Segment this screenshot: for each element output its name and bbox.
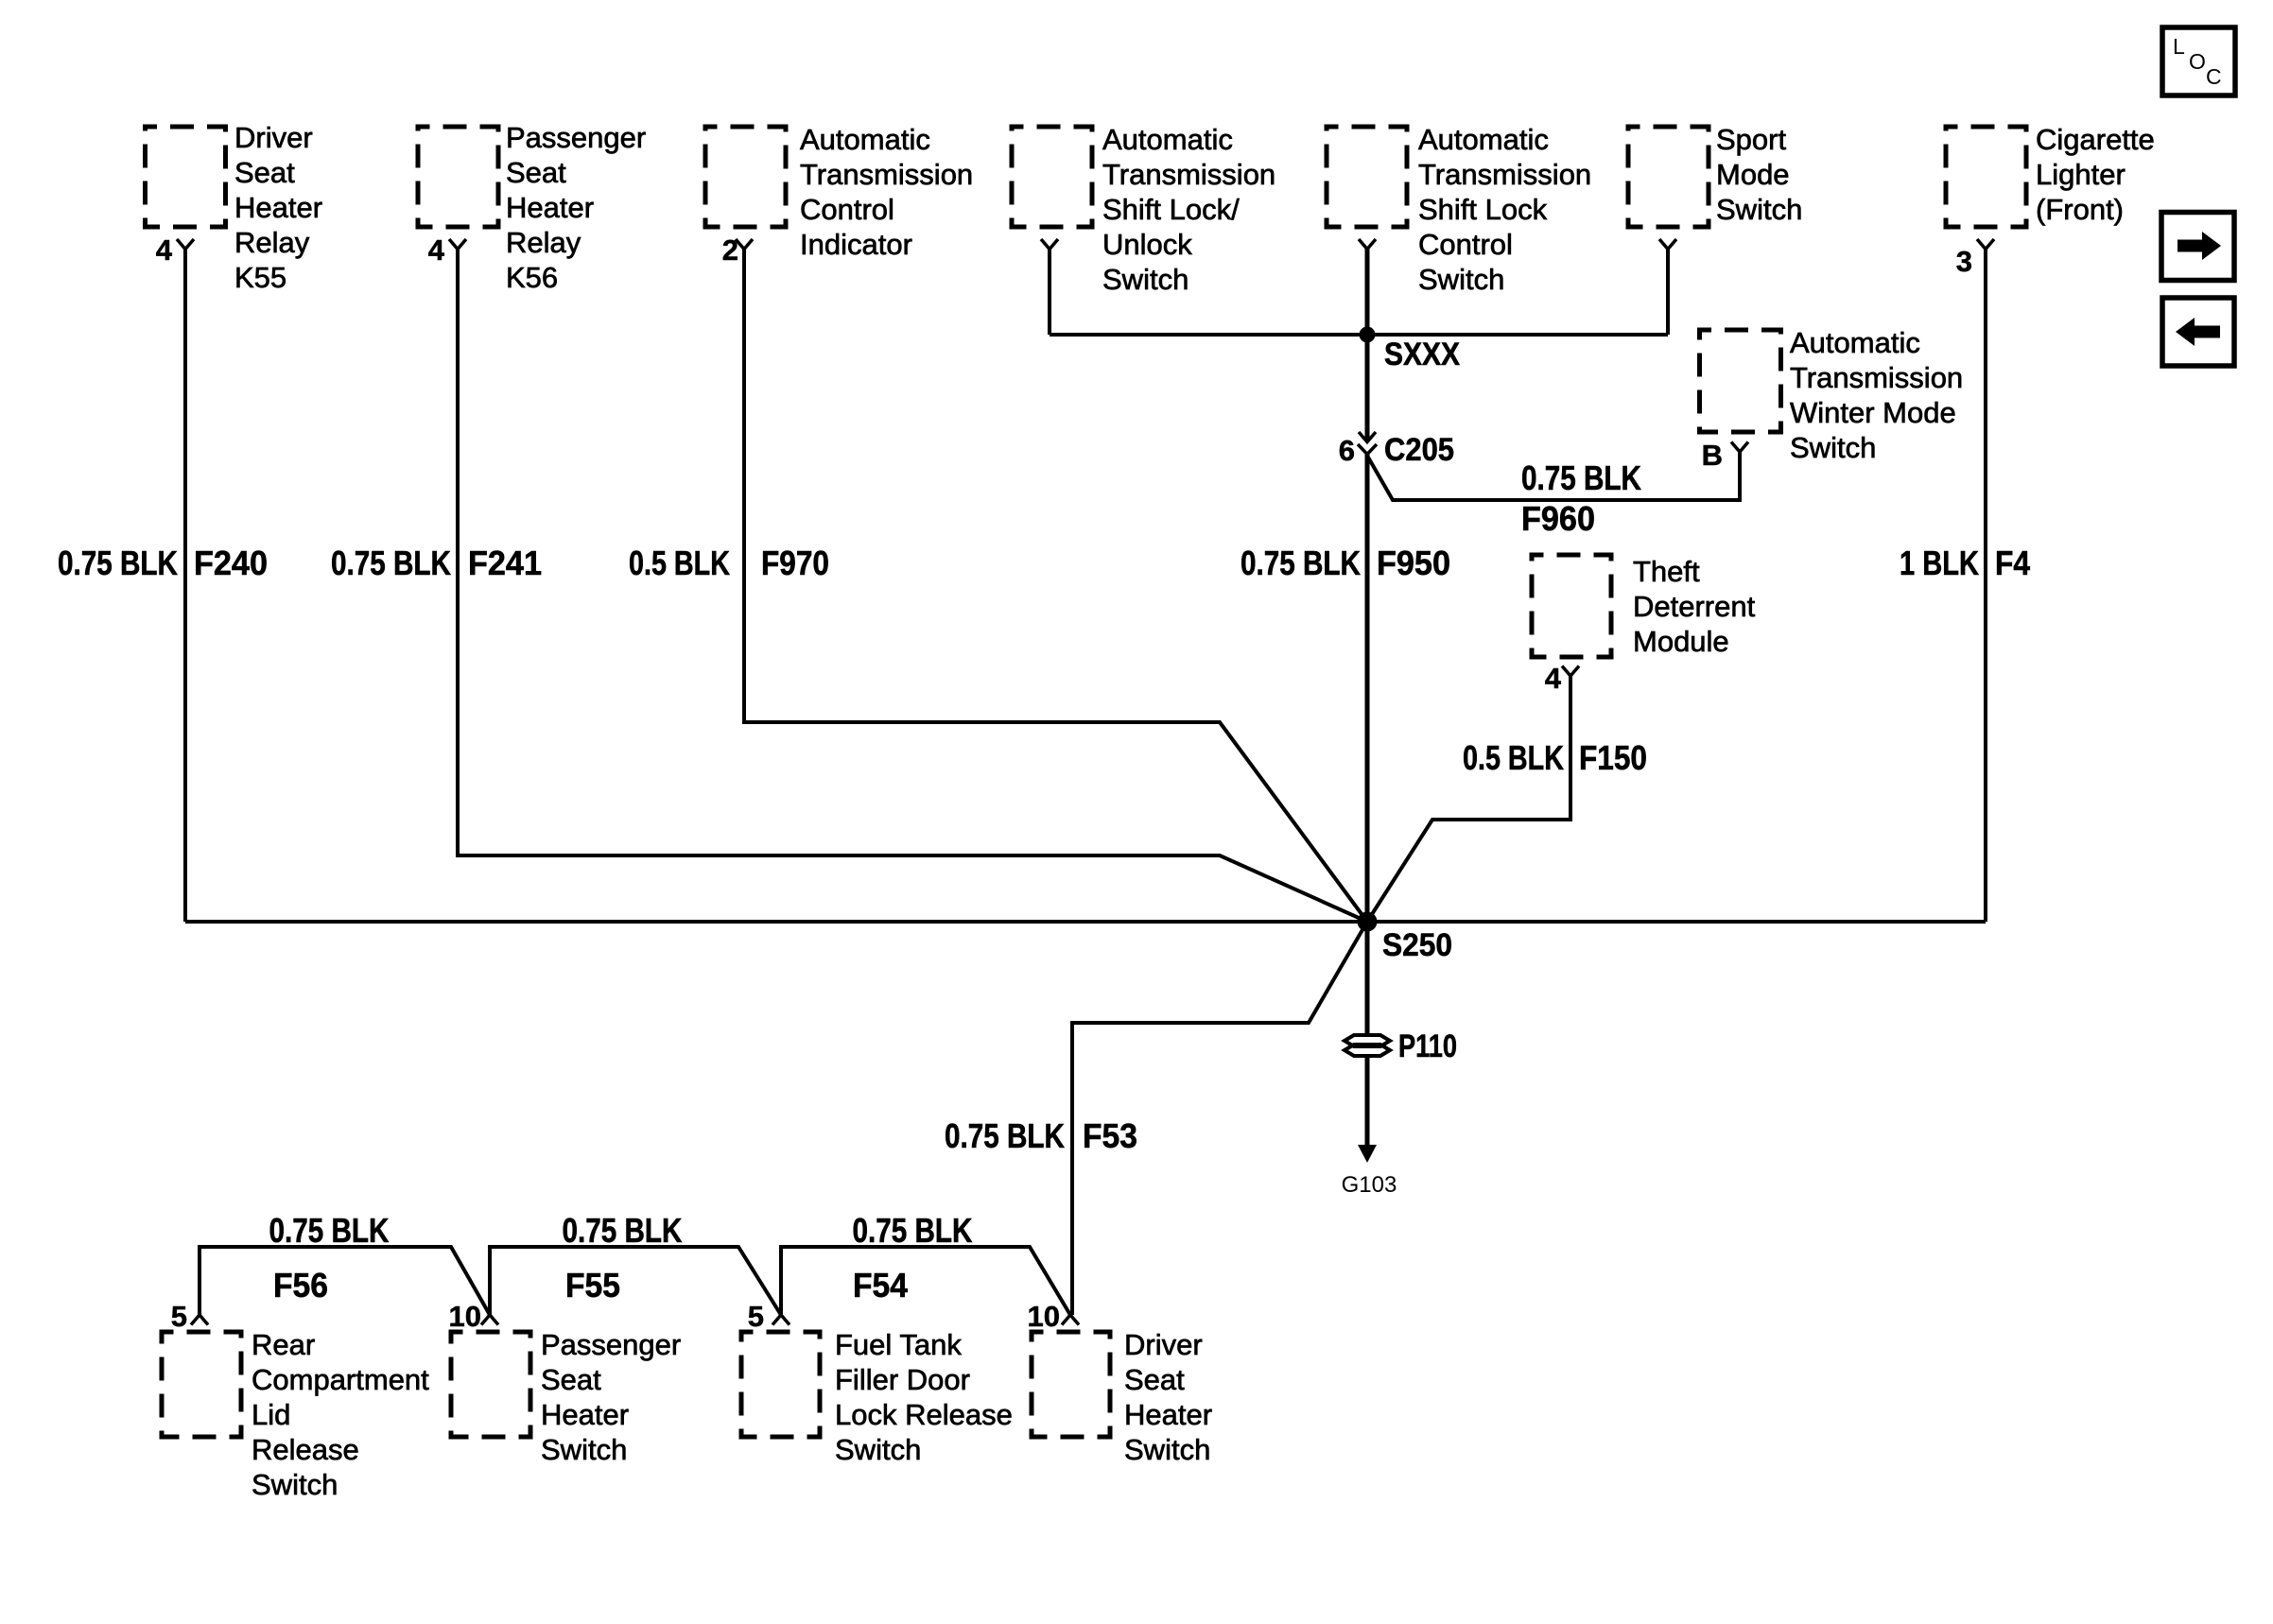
svg-text:Switch: Switch: [835, 1433, 921, 1466]
switch: Rear Compartment Lid Release Switch: [162, 1328, 429, 1501]
pin 5 of fuel tank filler door lock release switch: [748, 1300, 789, 1333]
svg-text:Winter Mode: Winter Mode: [1790, 396, 1956, 429]
pin B of winter mode switch: [1702, 439, 1748, 472]
splice S250: [1358, 912, 1453, 964]
svg-text:0.75 BLK: 0.75 BLK: [563, 1211, 683, 1250]
svg-text:C205: C205: [1384, 432, 1454, 468]
component: Cigarette Lighter (Front): [1946, 123, 2155, 227]
svg-text:3: 3: [1956, 245, 1972, 278]
grommet P110: [1345, 1028, 1457, 1064]
wire from P110 to ground: [1365, 1056, 1370, 1146]
svg-text:Automatic: Automatic: [1418, 123, 1549, 156]
svg-text:Transmission: Transmission: [1790, 361, 1963, 394]
svg-text:Sport: Sport: [1716, 123, 1786, 156]
svg-text:F55: F55: [565, 1266, 620, 1304]
pin 4 of K55: [156, 233, 194, 267]
svg-text:Relay: Relay: [506, 226, 581, 259]
svg-text:Compartment: Compartment: [252, 1363, 429, 1396]
svg-text:Driver: Driver: [234, 121, 313, 154]
svg-text:K56: K56: [506, 261, 558, 294]
wire F54 (fuel tank filler door lock release switch pin 5 to driver seat heater switch pin 10): [781, 1247, 1070, 1315]
svg-text:(Front): (Front): [2036, 193, 2124, 226]
wire F150 (S250 to theft deterrent module pin 4): [1367, 676, 1570, 922]
svg-text:4: 4: [428, 233, 445, 267]
ground G103: [1342, 1145, 1397, 1198]
svg-text:Switch: Switch: [541, 1433, 627, 1466]
svg-text:P110: P110: [1398, 1028, 1457, 1064]
label 0.75 BLK F53: [945, 1116, 1137, 1155]
svg-text:2: 2: [722, 233, 738, 267]
switch: Automatic Transmission Shift Lock Control Switch: [1327, 123, 1591, 296]
svg-text:Shift Lock: Shift Lock: [1418, 193, 1548, 226]
svg-text:S250: S250: [1382, 927, 1452, 963]
svg-text:Heater: Heater: [1124, 1398, 1212, 1431]
svg-text:Heater: Heater: [234, 191, 322, 224]
svg-text:F950: F950: [1377, 544, 1450, 582]
svg-text:0.75 BLK: 0.75 BLK: [1521, 458, 1641, 497]
svg-text:0.75 BLK: 0.75 BLK: [58, 544, 178, 582]
svg-text:Switch: Switch: [1102, 263, 1189, 296]
svg-text:F4: F4: [1995, 544, 2030, 582]
svg-text:Passenger: Passenger: [506, 121, 646, 154]
svg-text:0.75 BLK: 0.75 BLK: [1241, 544, 1361, 582]
svg-text:Mode: Mode: [1716, 158, 1790, 191]
switch: Automatic Transmission Winter Mode Switch: [1700, 326, 1964, 464]
svg-text:L: L: [2173, 34, 2185, 59]
svg-text:Automatic: Automatic: [1790, 326, 1920, 359]
wire F970 (indicator pin 2 to S250): [744, 250, 1367, 923]
svg-text:Filler Door: Filler Door: [835, 1363, 970, 1396]
pin 10 of driver seat heater switch: [1028, 1300, 1079, 1333]
svg-text:F960: F960: [1521, 499, 1595, 538]
wire F53 (S250 to driver seat heater switch pin 10): [1072, 922, 1367, 1315]
svg-text:10: 10: [1028, 1300, 1060, 1333]
switch: Driver Seat Heater Switch: [1032, 1328, 1212, 1466]
splice SXXX: [1360, 327, 1461, 373]
svg-text:Seat: Seat: [541, 1363, 601, 1396]
svg-text:Control: Control: [800, 193, 894, 226]
svg-text:Switch: Switch: [1418, 263, 1504, 296]
wire main vertical from C205 to P110 (through S250): [1365, 455, 1370, 1034]
switch: Sport Mode Switch: [1628, 123, 1802, 227]
svg-text:Switch: Switch: [1716, 193, 1802, 226]
label 0.5 BLK F150: [1463, 738, 1647, 777]
wire from shift lock/unlock switch down to SXXX bus: [1048, 250, 1051, 336]
indicator: Automatic Transmission Control Indicator: [705, 123, 973, 261]
wire F55 (passenger seat heater switch pin 10 to fuel tank filler door lock release switch pin 5): [490, 1247, 781, 1315]
switch: Passenger Seat Heater Switch: [451, 1328, 681, 1466]
svg-text:Unlock: Unlock: [1102, 228, 1192, 261]
svg-text:F53: F53: [1083, 1116, 1137, 1155]
pin of shift lock control switch: [1359, 239, 1376, 250]
wire F960 (C205 to winter mode switch pin B): [1367, 452, 1740, 500]
label 0.75 BLK F240: [58, 544, 268, 582]
pin 5 of rear compartment lid release switch: [171, 1300, 208, 1333]
wire SXXX horizontal bus: [1050, 333, 1668, 337]
svg-text:F54: F54: [853, 1266, 908, 1304]
pin 4 of K56: [428, 233, 466, 267]
svg-text:Shift Lock/: Shift Lock/: [1102, 193, 1240, 226]
svg-text:F150: F150: [1579, 738, 1647, 777]
svg-text:Indicator: Indicator: [800, 228, 912, 261]
wire F241 (K56 pin 4 to S250): [458, 250, 1367, 923]
svg-text:Switch: Switch: [252, 1468, 338, 1501]
svg-text:Theft: Theft: [1633, 555, 1700, 588]
pin 3 of cigarette lighter: [1956, 239, 1994, 278]
wire from sport mode switch down to SXXX bus: [1666, 250, 1670, 336]
svg-text:0.75 BLK: 0.75 BLK: [331, 544, 451, 582]
pin of sport mode switch: [1659, 239, 1676, 250]
legend LOC box: [2162, 27, 2235, 95]
svg-text:Passenger: Passenger: [541, 1328, 681, 1361]
svg-text:0.5 BLK: 0.5 BLK: [629, 544, 730, 582]
label 0.75 BLK F56: [269, 1211, 390, 1304]
label 0.75 BLK F54: [853, 1211, 973, 1304]
pin of shift lock/unlock switch: [1041, 239, 1058, 250]
legend left-arrow box: [2162, 298, 2234, 366]
module: Theft Deterrent Module: [1532, 555, 1756, 658]
svg-text:5: 5: [748, 1300, 764, 1333]
label 0.75 BLK F55: [563, 1211, 683, 1304]
svg-text:4: 4: [156, 233, 173, 267]
svg-text:6: 6: [1339, 434, 1355, 467]
svg-text:C: C: [2206, 64, 2222, 89]
svg-text:Heater: Heater: [541, 1398, 629, 1431]
svg-text:Release: Release: [252, 1433, 359, 1466]
svg-text:Transmission: Transmission: [1418, 158, 1591, 191]
wire main vertical from shift lock control switch to C205: [1365, 250, 1370, 441]
relay K55 Driver Seat Heater Relay: [146, 121, 323, 294]
label 0.75 BLK F950: [1241, 544, 1450, 582]
wire F56 (rear compartment lid release switch pin 5 to passenger seat heater switch pin 10): [200, 1247, 490, 1315]
svg-text:F241: F241: [468, 544, 542, 582]
svg-text:Relay: Relay: [234, 226, 310, 259]
svg-text:F56: F56: [273, 1266, 328, 1304]
svg-text:F240: F240: [194, 544, 268, 582]
svg-text:G103: G103: [1342, 1172, 1397, 1198]
svg-text:Transmission: Transmission: [800, 158, 973, 191]
svg-text:Seat: Seat: [234, 156, 295, 189]
svg-text:Seat: Seat: [506, 156, 566, 189]
pin 10 of passenger seat heater switch: [449, 1300, 498, 1333]
relay K56 Passenger Seat Heater Relay: [418, 121, 646, 294]
svg-text:Lid: Lid: [252, 1398, 290, 1431]
pin 2 of indicator: [722, 233, 753, 267]
svg-text:Automatic: Automatic: [800, 123, 930, 156]
svg-text:10: 10: [449, 1300, 481, 1333]
svg-text:0.75 BLK: 0.75 BLK: [853, 1211, 973, 1250]
svg-text:1 BLK: 1 BLK: [1900, 544, 1979, 582]
label 0.75 BLK F241: [331, 544, 542, 582]
svg-text:Heater: Heater: [506, 191, 594, 224]
svg-text:0.5 BLK: 0.5 BLK: [1463, 738, 1564, 777]
label 1 BLK F4: [1900, 544, 2030, 582]
switch: Automatic Transmission Shift Lock/Unlock Switch: [1012, 123, 1275, 296]
svg-text:Cigarette: Cigarette: [2036, 123, 2155, 156]
svg-text:Rear: Rear: [252, 1328, 315, 1361]
svg-text:B: B: [1702, 439, 1723, 472]
svg-text:5: 5: [171, 1300, 187, 1333]
svg-text:Switch: Switch: [1790, 431, 1876, 464]
svg-text:Driver: Driver: [1124, 1328, 1203, 1361]
svg-text:Automatic: Automatic: [1102, 123, 1233, 156]
svg-text:Seat: Seat: [1124, 1363, 1185, 1396]
svg-text:Lock Release: Lock Release: [835, 1398, 1013, 1431]
svg-text:0.75 BLK: 0.75 BLK: [945, 1116, 1065, 1155]
svg-text:Control: Control: [1418, 228, 1513, 261]
legend right-arrow box: [2161, 213, 2234, 281]
svg-text:0.75 BLK: 0.75 BLK: [269, 1211, 390, 1250]
svg-text:4: 4: [1545, 662, 1562, 695]
svg-text:F970: F970: [761, 544, 829, 582]
svg-text:SXXX: SXXX: [1384, 337, 1460, 372]
switch: Fuel Tank Filler Door Lock Release Switch: [741, 1328, 1013, 1466]
svg-text:Module: Module: [1633, 625, 1729, 658]
svg-text:Deterrent: Deterrent: [1633, 590, 1756, 623]
svg-text:Transmission: Transmission: [1102, 158, 1275, 191]
label 0.75 BLK F960: [1521, 458, 1641, 538]
svg-text:K55: K55: [234, 261, 286, 294]
svg-text:Switch: Switch: [1124, 1433, 1210, 1466]
svg-text:Lighter: Lighter: [2036, 158, 2126, 191]
pin 4 of theft deterrent module: [1545, 662, 1579, 695]
svg-text:Fuel Tank: Fuel Tank: [835, 1328, 962, 1361]
connector C205: [1339, 432, 1454, 468]
wire F240 (K55 pin 4 to S250): [185, 250, 1367, 923]
label 0.5 BLK F970: [629, 544, 829, 582]
wire F4 (cigarette lighter pin 3 to S250): [1367, 250, 1986, 923]
svg-text:O: O: [2189, 49, 2206, 74]
